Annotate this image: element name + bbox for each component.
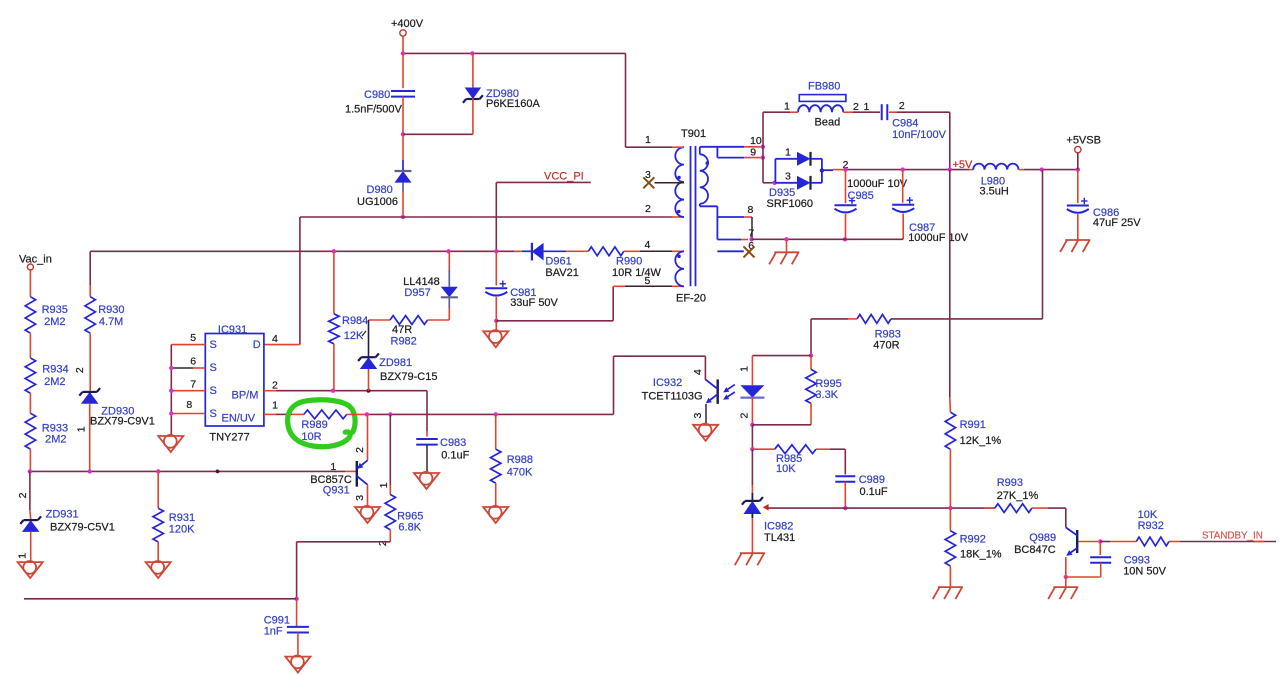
svg-text:0.1uF: 0.1uF [860, 486, 888, 498]
junction rail at +5VSB [1076, 167, 1080, 171]
wire secondary bottom stub [699, 204, 701, 207]
svg-text:47R: 47R [392, 324, 412, 336]
capacitor C983 [416, 438, 438, 440]
svg-text:BAV21: BAV21 [545, 267, 578, 279]
resistor R932 [1136, 537, 1169, 546]
resistor R989 [304, 410, 347, 419]
resistor R965 [385, 495, 395, 530]
svg-text:D980: D980 [367, 184, 393, 196]
svg-text:TCET1103G: TCET1103G [642, 391, 703, 403]
polarity dot primary lower [677, 210, 681, 214]
junction C980 bottom [401, 132, 405, 136]
wire D961 anode lead [566, 250, 575, 252]
wire D980 anode stub [402, 183, 404, 192]
wire TL431 cathode stub [751, 485, 753, 493]
wire R983 left stub [848, 318, 857, 320]
svg-text:ZD931: ZD931 [46, 508, 79, 520]
svg-text:18K_1%: 18K_1% [960, 549, 1002, 561]
transformer T901 secondary winding [700, 154, 708, 204]
wire R988 to ground [495, 483, 497, 507]
wire base to R932 [1100, 541, 1110, 543]
transistor Q931 BC857C [356, 461, 358, 487]
wire +5V rail [846, 169, 970, 171]
resistor R930 [85, 297, 95, 334]
svg-text:BZX79-C9V1: BZX79-C9V1 [90, 416, 155, 428]
zener ZD930 (cathode up) [81, 392, 99, 404]
svg-text:4: 4 [645, 239, 651, 251]
capacitor C981 33uF polarized [485, 287, 507, 289]
junction LED anode node [809, 353, 813, 357]
svg-text:BP/M: BP/M [232, 390, 259, 402]
wire pin8 to pin7 join [751, 217, 753, 239]
svg-text:3: 3 [692, 413, 704, 419]
wire emitter to ground [1065, 577, 1067, 587]
svg-text:1000uF 10V: 1000uF 10V [847, 178, 908, 190]
junction EN at R988 [494, 412, 498, 416]
svg-text:EN/UV: EN/UV [222, 412, 256, 424]
wire LED cathode down [751, 425, 753, 449]
junction EN at R965 [388, 412, 392, 416]
wire R990 to T901 pin4 stub [624, 250, 640, 252]
ground C986 [1065, 239, 1090, 241]
ground Q931 [355, 507, 380, 523]
svg-text:S: S [210, 385, 217, 397]
wire D935 cathode join [821, 159, 823, 183]
transistor Q989 BC847C [1076, 530, 1078, 553]
junction pin10 [761, 145, 765, 149]
wire ZD980 bottom lead [472, 98, 474, 134]
wire D961 cathode stub [514, 250, 522, 252]
wire D935 out stub [822, 169, 833, 171]
wire R930 to ZD930 [89, 333, 91, 391]
junction BP/M at ZD981 [367, 389, 371, 393]
polarity dot secondary [706, 161, 710, 165]
svg-text:1: 1 [864, 101, 870, 113]
wire pin4 lead [640, 250, 672, 252]
junction rail at riser [948, 167, 952, 171]
wire R993 right stub [1032, 507, 1048, 509]
wire terminal to rail [1077, 153, 1079, 170]
svg-text:1nF: 1nF [264, 626, 283, 638]
svg-text:3.5uH: 3.5uH [980, 186, 1009, 198]
wire C991 top lead [296, 599, 298, 627]
wire +5V down to R991 [949, 170, 951, 398]
svg-text:TNY277: TNY277 [209, 432, 249, 444]
ground TL431 [740, 552, 765, 554]
ground R931 [146, 562, 171, 578]
junction gnd bus at ground [784, 237, 788, 241]
junction source bus pin6 [169, 366, 173, 370]
stray tick mark [362, 331, 366, 336]
wire C984 right stub [889, 111, 897, 113]
svg-text:1: 1 [645, 134, 651, 146]
capacitor C986 47uF polarized [1067, 205, 1089, 207]
svg-text:R990: R990 [616, 256, 642, 268]
wire Q989 emitter lead [1065, 557, 1067, 577]
svg-text:Vac_in: Vac_in [19, 254, 52, 266]
svg-text:R991: R991 [960, 419, 986, 431]
resistor R934 [25, 358, 35, 393]
wire EN up [613, 356, 615, 414]
no-connect X pin3 [643, 177, 654, 188]
wire pin7 lead [717, 239, 741, 241]
wire C993 bottom lead [1100, 563, 1102, 577]
svg-text:EF-20: EF-20 [676, 293, 706, 305]
wire bottom net [24, 598, 297, 600]
junction TL431 cathode node [750, 447, 754, 451]
wire R934 to R933 [29, 393, 31, 413]
wire R989 right lead [347, 413, 365, 415]
svg-text:BC847C: BC847C [1014, 544, 1056, 556]
svg-text:C984: C984 [892, 118, 918, 130]
svg-text:R988: R988 [507, 454, 533, 466]
no-connect X pin6 [744, 246, 755, 257]
wire ZD931 to ground [30, 532, 32, 562]
wire C986 to ground [1077, 214, 1079, 240]
wire R983 right net [891, 318, 1043, 320]
resistor R933 [25, 413, 35, 449]
junction VCC bus at R984 [332, 249, 336, 253]
wire pin7 red stub [741, 239, 748, 241]
wire +5VSB down to R983 [1042, 170, 1044, 319]
wire R982 left lead [369, 319, 391, 321]
wire aux return to T901 pin5 [496, 320, 613, 322]
svg-text:T901: T901 [681, 128, 706, 140]
svg-text:1: 1 [784, 101, 790, 113]
svg-text:2: 2 [899, 100, 905, 112]
wire D957 anode stub [448, 270, 450, 287]
capacitor C984 [881, 104, 883, 120]
ground Q989 [1053, 586, 1078, 588]
svg-text:4.7M: 4.7M [99, 316, 123, 328]
svg-text:BZX79-C15: BZX79-C15 [380, 371, 437, 383]
junction base bus left [28, 469, 32, 473]
zener symbol TL431 [744, 501, 762, 514]
junction feedback at C989 [843, 506, 847, 510]
svg-text:6.8K: 6.8K [398, 521, 421, 533]
wire D980 anode lead [402, 192, 404, 217]
wire C986 top lead [1077, 170, 1079, 204]
wire base bus [30, 470, 345, 472]
wire C987 bottom lead [902, 214, 904, 240]
svg-text:BZX79-C5V1: BZX79-C5V1 [50, 522, 115, 534]
resistor R992 [945, 531, 955, 566]
svg-text:R989: R989 [301, 419, 327, 431]
svg-text:2: 2 [17, 492, 29, 498]
wire D961 cathode blue stub [522, 250, 531, 252]
svg-text:2: 2 [74, 367, 86, 373]
svg-text:33uF 50V: 33uF 50V [510, 297, 558, 309]
wire VCC bus [90, 250, 521, 252]
resistor R982 47R [390, 316, 428, 325]
zener ZD931 (cathode up) [22, 520, 40, 532]
ground secondary [774, 251, 799, 253]
resistor R985 [775, 445, 816, 454]
wire pin1 stub at winding [672, 146, 684, 148]
diode D980 (cathode up) [395, 171, 412, 183]
wire IC932 pin4 lead [704, 356, 706, 380]
svg-text:R935: R935 [42, 304, 68, 316]
wire FB980 pin1 stub [790, 111, 798, 113]
wire BP/M net [276, 390, 427, 392]
wire LED anode lead [751, 356, 753, 386]
resistor R983 [857, 315, 891, 324]
wire R985 to C989 [830, 448, 845, 450]
junction EN at Q931 [365, 412, 369, 416]
svg-text:FB980: FB980 [808, 81, 840, 93]
svg-text:S: S [210, 408, 217, 420]
ground IC931 source [158, 436, 183, 452]
svg-text:470R: 470R [873, 340, 899, 352]
wire C985 bottom lead [845, 214, 847, 239]
junction C981 bottom node [494, 319, 498, 323]
svg-text:TL431: TL431 [764, 532, 795, 544]
wire down to ZD931 [29, 471, 31, 510]
wire ZD981 cathode lead [368, 320, 370, 356]
wire BP/M down to C983 [426, 391, 428, 431]
wire IC932 pin3 lead [705, 404, 707, 425]
svg-text:IC982: IC982 [764, 521, 793, 533]
wire Vac_in to R935 [29, 270, 31, 297]
wire EN net [365, 413, 614, 415]
wire D935 out red stub [833, 169, 846, 171]
wire EN down to R965 [389, 414, 391, 485]
wire IC931 pin1 stub [264, 413, 276, 415]
wire C981 bottom lead [495, 297, 497, 321]
wire pin3 stub [655, 182, 685, 184]
wire C980 to ZD980 bottom [403, 133, 473, 135]
wire feedback net [768, 507, 995, 509]
junction rail at R983 riser [1040, 167, 1044, 171]
wire pin6 stub [717, 250, 743, 252]
wire R995 to LED cathode [752, 424, 811, 426]
transformer T901 core [690, 146, 692, 286]
wire ZD931 top stub [29, 510, 32, 519]
wire R930 top stub [89, 285, 91, 297]
wire TL431 anode to ground [751, 518, 753, 553]
svg-text:2: 2 [645, 203, 651, 215]
svg-text:10K: 10K [776, 463, 796, 475]
svg-text:10R: 10R [301, 431, 321, 443]
wire IC931 pin5 lead [171, 344, 205, 346]
wire R993 to Q989 [1048, 507, 1066, 509]
wire pin5 lead [625, 285, 672, 287]
wire R965 to C991 column [297, 541, 391, 543]
svg-text:8: 8 [186, 399, 192, 411]
svg-text:R931: R931 [169, 512, 195, 524]
junction base/C993/R932 [1098, 539, 1102, 543]
wire C987 top lead [902, 170, 904, 203]
polarity dot aux [677, 254, 681, 258]
svg-text:470K: 470K [507, 467, 533, 479]
resistor R988 [491, 449, 501, 483]
zener ZD980 (cathode down) [465, 88, 482, 100]
wire R995 top stub [810, 356, 812, 370]
wire IC931 pin6 stub [193, 367, 205, 369]
wire C983 top stub [426, 431, 428, 437]
junction rail at C987 [901, 167, 905, 171]
svg-text:5: 5 [645, 275, 651, 287]
junction feedback at R991/R992 [948, 506, 952, 510]
wire R992 to ground [949, 566, 951, 587]
capacitor C980 [391, 90, 415, 92]
wire R931 to ground [157, 542, 159, 562]
wire L980 left stub [969, 169, 973, 171]
wire D935-3 cathode stub [811, 182, 822, 184]
wire pin9 riser [716, 147, 718, 158]
wire C983 to ground [426, 445, 428, 473]
wire R932 right stub [1169, 541, 1180, 543]
svg-text:2M2: 2M2 [45, 434, 66, 446]
wire R935 to R934 [29, 333, 31, 358]
wire L980 right stub [1019, 169, 1025, 171]
terminal Vac_in [27, 264, 33, 270]
wire pin10 red stub [744, 146, 761, 148]
wire TL431 anode navy stub [751, 513, 753, 518]
wire FB980 pin2 stub [843, 111, 852, 113]
terminal +5VSB [1075, 146, 1081, 152]
wire D961 anode blue stub [544, 250, 566, 252]
wire down to TL431 [751, 449, 753, 485]
wire C991 to ground [297, 633, 299, 657]
svg-text:IC932: IC932 [653, 377, 682, 389]
wire C985 top lead [845, 170, 847, 204]
capacitor C991 [287, 626, 309, 628]
wire Q931 base stub [345, 470, 356, 472]
wire ZD930 to base bus [89, 404, 91, 472]
diode D935-1 (cathode right) [797, 152, 811, 166]
junction emitter/C993 [1064, 575, 1068, 579]
wire T901 pin2 drain net [300, 216, 672, 218]
op-amp IC931 TNY277 body [205, 334, 264, 427]
wire R983 left net [811, 318, 848, 320]
wire pin9 red stub [744, 157, 761, 159]
wire aux return up [612, 286, 614, 321]
wire bus to R931 [157, 471, 159, 508]
wire pin10 lead [700, 146, 744, 148]
svg-text:C985: C985 [848, 190, 874, 202]
wire IC931 pin2 stub [264, 390, 276, 392]
wire C989 top lead [844, 449, 846, 474]
wire R985 left lead [752, 448, 774, 450]
wire R965 top stub [389, 485, 391, 495]
ground C981 primary [483, 331, 508, 347]
svg-text:1: 1 [75, 426, 87, 432]
svg-text:C980: C980 [364, 89, 390, 101]
junction C991 node [294, 597, 298, 601]
wire ZD981 anode to BP/M [368, 369, 370, 391]
optocoupler IC932 phototransistor [717, 379, 719, 404]
svg-text:R930: R930 [98, 304, 124, 316]
wire secondary ground bus [752, 238, 904, 240]
wire IC931 pin8 lead [171, 413, 205, 415]
wire C980 bottom lead [402, 97, 404, 135]
resistor R995 [806, 369, 816, 403]
wire ZD980 top lead [472, 53, 474, 98]
resistor R931 [153, 508, 163, 542]
wire to T901 pin1 [626, 146, 673, 148]
wire pin8 lead [717, 216, 744, 218]
wire pin4 red stub [672, 250, 684, 252]
svg-text:D935: D935 [769, 187, 795, 199]
capacitor C993 [1090, 556, 1111, 558]
svg-text:C991: C991 [264, 614, 290, 626]
svg-text:10nF/100V: 10nF/100V [892, 129, 946, 141]
svg-text:3: 3 [785, 171, 791, 183]
wire VCC_PI stub [496, 181, 591, 183]
wire R993 left stub [984, 507, 995, 509]
wire pin5 stub at winding [672, 285, 684, 287]
wire up to D957 cathode [448, 308, 450, 320]
svg-text:1: 1 [330, 461, 336, 473]
svg-text:10K: 10K [1138, 509, 1158, 521]
wire down to LED node [810, 319, 812, 356]
svg-text:2M2: 2M2 [44, 376, 65, 388]
ground C983 [414, 473, 439, 489]
junction pin7 [749, 237, 753, 241]
resistor R935 [25, 297, 35, 334]
diode D935-3 (cathode right) [797, 176, 811, 190]
wire to primary ground [495, 321, 497, 332]
junction VCC bus at D957 [446, 249, 450, 253]
LED IC932 (cathode down) [740, 385, 764, 397]
wire D980 cathode lead [402, 134, 404, 160]
svg-text:IC931: IC931 [218, 324, 247, 336]
wire secondary bottom riser [716, 206, 718, 239]
wire secondary top riser [699, 147, 701, 155]
svg-text:10: 10 [750, 135, 762, 147]
TL431 reference arrow [763, 504, 769, 511]
junction base bus at R931 [156, 469, 160, 473]
wire IC931 pin6 lead [171, 367, 193, 369]
svg-text:27K_1%: 27K_1% [997, 490, 1039, 502]
svg-text:S: S [210, 339, 217, 351]
svg-text:47uF 25V: 47uF 25V [1093, 217, 1141, 229]
wire R933 to base bus [29, 449, 31, 471]
wire +5VSB rail [1024, 169, 1078, 171]
wire C984 to +5V riser [897, 111, 950, 113]
svg-text:+5VSB: +5VSB [1066, 135, 1101, 147]
wire Q931 collector to ground [367, 485, 369, 507]
wire EN to IC932 collector [614, 355, 706, 357]
junction source bus pin7 [169, 389, 173, 393]
terminal +400V [400, 30, 406, 36]
svg-text:2: 2 [738, 413, 750, 419]
wire red segment under STANDBY_IN [1254, 541, 1264, 543]
wire bus to D935 [763, 182, 775, 184]
junction BP/M at R984 [331, 389, 335, 393]
junction base bus at ZD930 [88, 469, 92, 473]
wire terminal to top rail [402, 36, 404, 53]
wire secondary bottom link [700, 205, 718, 207]
diode D935 frame [774, 159, 776, 183]
svg-text:2: 2 [354, 447, 366, 453]
wire EN net to R989 [276, 413, 292, 415]
svg-text:1: 1 [272, 399, 278, 411]
ground ZD931 [18, 562, 43, 578]
svg-text:12K_1%: 12K_1% [960, 435, 1002, 447]
wire R984 bottom lead [333, 344, 335, 391]
svg-text:UG1006: UG1006 [357, 196, 398, 208]
wire LED cathode lead [751, 397, 753, 425]
resistor R993 [995, 504, 1032, 513]
wire R991 bottom lead [949, 449, 951, 508]
inductor FB980 coil [798, 105, 843, 112]
svg-text:Bead: Bead [815, 116, 841, 128]
wire R932 left red lead [1110, 541, 1136, 543]
wire pin9 lead [717, 157, 744, 159]
svg-text:SRF1060: SRF1060 [767, 198, 813, 210]
